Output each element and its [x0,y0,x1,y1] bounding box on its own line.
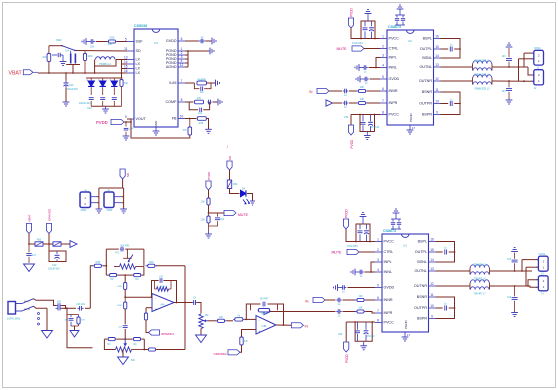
resistor R33 [195,100,204,104]
wire BT2 pins to gnd [122,196,124,198]
svg-text:IN: IN [305,325,309,329]
U3 pin 6 GVDD [166,37,185,43]
svg-text:R26: R26 [110,36,115,40]
capacitor C40 [343,101,349,106]
wire jack sleeve to earth [46,308,48,330]
capacitor C13 to ground top [512,253,518,272]
svg-text:PVDD: PVDD [207,171,211,180]
wire op-amp1 minus input [125,296,151,298]
svg-text:+: + [155,307,157,311]
capacitor C3 [358,270,364,275]
U1 PGND pin 17 [404,319,411,337]
U2 pin 2 CTRL [380,45,398,51]
svg-text:4: 4 [382,64,384,68]
svg-text:INNR: INNR [384,298,393,302]
svg-text:PWRPA L4: PWRPA L4 [99,63,111,66]
inductor L4b [473,78,492,85]
svg-text:560K: 560K [160,286,166,288]
svg-text:11: 11 [435,88,439,92]
wire riser to tone network [90,266,93,309]
ground right of COMP [217,99,222,106]
svg-text:1/3PH_MAS: 1/3PH_MAS [7,318,21,321]
inductor L3 [473,75,492,85]
svg-text:10K: 10K [201,201,206,204]
wire COMP loop [189,102,198,110]
capacitor C32 loop [194,83,211,91]
U1 pin 1 PVCC [375,238,394,244]
svg-text:BSPR: BSPR [417,317,427,321]
svg-text:100uF/10V: 100uF/10V [48,268,60,271]
wire C4 to pot2 [197,303,201,314]
wire after L1L2 [492,66,528,68]
svg-text:MUTE: MUTE [332,251,343,255]
resistor R35 [188,119,192,136]
U1 pin 16 BSPL [418,238,436,244]
svg-text:8: 8 [181,98,183,102]
earth below RP2 [118,357,129,365]
U2 pin 1 PVCC [380,35,399,41]
svg-text:50K RP1: 50K RP1 [120,245,130,247]
svg-text:VBAT: VBAT [9,70,23,76]
svg-text:14: 14 [430,258,434,262]
svg-text:C53: C53 [344,116,349,119]
wire SD port down [122,179,124,188]
resistor R14 [233,318,244,321]
U3 pin 4 PGND [166,59,185,65]
wire long vertical [184,266,186,350]
wire R16 to port [240,345,242,352]
svg-text:47uF/25V: 47uF/25V [347,245,358,248]
ground below R44 [205,231,212,238]
U1 pin 3 INPL [375,258,392,264]
resistor R40 [197,81,207,85]
svg-text:OPAVDD: OPAVDD [48,208,52,221]
resistor R26 [106,40,117,43]
U3 pin 5 SSF [125,38,144,44]
svg-text:104: 104 [220,218,225,221]
wire R10 to R14 [226,320,233,322]
wire feedback to VOUT [131,122,190,138]
port MUTE U2 [352,46,364,51]
wire MUTE to CTRL [364,48,380,50]
svg-text:C30: C30 [69,84,74,87]
wire COMP to ground [213,101,218,103]
svg-text:BSPR: BSPR [422,113,432,117]
wire U1 OUTPL15 [436,251,443,253]
wire to J1 pin2 [523,53,525,67]
svg-text:47uF/25V: 47uF/25V [352,42,363,45]
capacitor C21 feedback [160,278,162,283]
resistor R8 feedback [155,281,172,292]
capacitor C44 polarized [368,115,373,132]
coupling capacitor C16 [36,306,62,310]
svg-text:LX: LX [136,67,141,71]
wire op-amp1 output [174,302,192,304]
wire jack top contact [34,299,56,306]
U3 pin 3 PGND [166,55,185,61]
wire R13 to long vertical [156,349,185,351]
ground below C14 [511,312,518,317]
U2 pin 6 INNR [380,87,398,93]
port OPAVDD [46,224,51,234]
wire PVDD to VOUT [124,119,131,122]
wire jack lower contact [34,306,48,308]
svg-text:IN: IN [305,299,309,303]
svg-text:GVDD: GVDD [384,286,395,290]
svg-text:PVDD: PVDD [345,208,349,218]
ground right of C35 [211,38,216,45]
svg-text:8: 8 [382,111,384,115]
capacitor C1 [358,224,363,242]
svg-text:OUTPL: OUTPL [415,250,427,254]
wire COMP [185,101,194,103]
wire OUTPR10 [441,103,449,105]
svg-text:10K: 10K [205,315,210,317]
wire VBAT lead [33,71,38,73]
capacitor C12 bootstrap [445,306,447,311]
wire R41 to INNR [367,90,380,92]
wire op-amp2 output [276,324,291,326]
wire LX bus [121,60,123,79]
wire GVDD5 [370,78,381,80]
ground below LED [250,201,255,205]
resistor R11 [107,338,116,341]
potentiometer RP2 [116,347,145,352]
svg-text:VBAT: VBAT [107,209,114,212]
wire R45 to loop [103,265,106,267]
capacitor C45 bootstrap [450,47,452,52]
ground above U1 PVCC1 caps [360,213,367,225]
wire FB2 to LED [230,189,240,194]
svg-text:40dBPA: 40dBPA [197,79,206,82]
wire C39 to R41 [349,90,357,92]
wire C20 to loop2 [124,329,126,339]
resistor R1 [355,298,366,301]
svg-text:COMP: COMP [165,100,177,104]
wire BT1 pins to bus [97,196,99,198]
svg-text:R36: R36 [199,122,204,125]
resistor R10 [216,319,227,322]
capacitor C27 [71,51,76,64]
svg-text:OUTPR: OUTPR [419,102,432,106]
wire to J4 pin2 [528,280,538,286]
resistor R27 [83,51,86,73]
wire C40 loop [49,244,66,262]
svg-text:NC_L: NC_L [24,301,30,303]
svg-text:INPR: INPR [389,101,398,105]
svg-text:FB3: FB3 [37,238,42,241]
earth triangle U1 INPR7 [264,308,271,314]
wire R2 to U1 INPR [366,312,376,314]
svg-text:104: 104 [90,46,95,49]
port IN U1 [313,297,325,302]
port PVDD mute [206,181,211,190]
potentiometer RP3 [199,314,208,329]
earth below pot2 [196,335,207,343]
U3 pin 12 AGND [166,63,185,69]
wire C46 to bracket [454,103,460,105]
svg-text:10: 10 [435,100,439,104]
svg-text:BSPL: BSPL [423,37,432,41]
U1 pin 15 OUTPL [415,248,436,254]
U2 pin 10 OUTPR [419,100,440,106]
U1 pin 11 BSNR [417,293,436,299]
inductor L5 [470,265,489,275]
U3 pin 1 PGND [166,47,185,53]
svg-text:6: 6 [382,87,384,91]
U3 pin 8 COMP [165,98,185,104]
port PVDD bottom U2 [348,125,353,135]
wire U1 OUTPR10 [436,307,443,309]
wire L4 loop [95,60,116,67]
U2 pin 15 OUTPL [420,45,441,51]
capacitor C38 [363,77,369,82]
wire FB4 to arrow [61,243,70,245]
wire diode row top [86,77,122,79]
inductor L1 [473,61,492,71]
svg-text:100K: 100K [88,56,94,58]
diode D2 [98,78,106,95]
wire U1 BSPR9 bracket [436,297,455,319]
wire OPAVDD port down [48,234,50,245]
ferrite bead FB4 [53,242,61,246]
svg-text:PVCC: PVCC [384,321,395,325]
svg-text:SW2: SW2 [56,38,62,42]
capacitor C51 polarized [55,251,60,262]
ground right of ILIM [215,80,220,87]
svg-text:10K: 10K [360,86,365,89]
ground below R36 [205,129,212,133]
wire MUTE to U1 CTRL [359,251,375,253]
ground right of PGND [209,48,214,55]
capacitor C14 to ground bottom [512,286,518,312]
svg-text:INPL: INPL [384,260,392,264]
wire SD to switch [75,50,127,53]
svg-text:NC: NC [110,279,114,281]
svg-text:NC: NC [107,344,111,346]
inductor L7 [470,280,489,290]
inductor L8 [471,283,490,290]
wire LED to ground [247,194,253,202]
svg-text:47K: 47K [81,320,85,322]
svg-text:50K: 50K [131,360,136,362]
wire C17 to riser [85,307,90,309]
wire to C30 [65,73,67,81]
svg-text:10K: 10K [219,317,224,319]
capacitor C53 [112,98,117,107]
wire after L5L6 [490,270,533,272]
svg-text:13: 13 [435,63,439,67]
svg-text:-: - [155,296,156,300]
svg-text:12: 12 [430,282,434,286]
svg-text:IN: IN [309,90,313,94]
svg-text:5: 5 [382,75,384,79]
svg-text:LX: LX [136,62,141,66]
svg-text:100K: 100K [117,305,123,307]
RP1 wiper [123,249,133,262]
svg-text:U1: U1 [403,244,407,248]
svg-text:11: 11 [430,293,434,297]
svg-text:INPL: INPL [389,56,397,60]
wire U1 OUTNL13 line [436,270,471,272]
svg-text:GVDD: GVDD [389,77,400,81]
svg-text:C40: C40 [52,264,57,267]
wire R36 to ground [206,119,208,130]
svg-text:OUTNR: OUTNR [414,284,427,288]
wire FB [185,118,197,120]
ground below PVCC8 caps [364,132,371,140]
capacitor C17 [77,306,83,311]
IC U1 CS8673 amplifier body [382,229,429,332]
battery holder BT1 [80,190,97,212]
op-amp1 feedback loop [152,281,159,298]
svg-text:U3: U3 [154,41,158,45]
svg-text:CS5038: CS5038 [134,24,147,28]
ground left of C26 [82,38,89,45]
wire to J3 pin1 [525,267,527,286]
svg-text:C52: C52 [338,333,343,336]
svg-text:OUTNR: OUTNR [419,79,432,83]
wire pot2 wiper [208,320,217,322]
wire after L7L8 [490,286,539,287]
wire RC bottom [71,325,79,327]
svg-text:FB2: FB2 [233,183,238,186]
svg-text:PVCC: PVCC [389,37,400,41]
port MUTE U1 [347,249,359,254]
wire batt top bus [99,187,124,189]
earth below C50 [24,264,35,272]
IC U3 CS5038 boost converter body [134,24,178,127]
wire R7 to C20 [124,309,126,324]
capacitor C8 [355,322,360,341]
resistor R4 [108,274,118,277]
ground below diode caps [102,106,109,113]
resistor R2 [355,310,366,313]
ground above C47 [506,43,513,47]
U3 pin 16 LX [124,69,141,75]
svg-text:OUTPR: OUTPR [414,306,427,310]
U3 GND pin 17 [154,120,158,131]
wire tone loop 1 [106,248,119,250]
capacitor C51 [89,98,94,107]
wire VBAT port down [29,234,35,245]
port PVDD [111,119,124,124]
wire C11 to bracket [449,251,455,253]
wire C6 to R1 [343,299,356,301]
port PVDD top U2 [348,18,353,28]
wire IN to C39 [329,90,342,92]
U1 pin 12 OUTNR [414,282,436,288]
svg-text:PVDD: PVDD [345,353,349,363]
diode D1 [87,78,95,95]
svg-text:13: 13 [430,267,434,271]
U2 pin 11 BSNR [422,88,441,94]
capacitor C42 polarized [369,21,374,39]
wire R42 to INPR [367,102,380,104]
wire U1 BSPL16 bracket [436,242,455,263]
svg-text:6: 6 [377,296,379,300]
wire to J3 pin2 [521,260,523,271]
svg-text:471C10: 471C10 [367,336,376,338]
svg-text:1: 1 [377,238,379,242]
wire plus input bias [145,308,147,313]
capacitor C2 polarized [364,224,369,242]
wire PVDD to U1 PVCC1 [346,229,375,242]
wire cap row bottom bus [91,105,121,107]
wire C30 to ground [65,88,67,103]
svg-text:R46: R46 [149,261,154,264]
capacitor C50 [26,244,31,263]
audio jack J5 [8,299,34,314]
resistor R46 [145,264,157,267]
U2 pin 16 BSPL [423,35,441,41]
U2 pin 7 INPR [380,99,398,105]
svg-text:10K: 10K [201,219,206,222]
svg-text:16: 16 [430,238,434,242]
U3 pin 11 SD [124,47,141,53]
svg-text:U4B: U4B [262,325,267,328]
port PVDD bottom U1 [344,342,349,352]
svg-text:4: 4 [377,268,379,272]
svg-text:BSNL: BSNL [422,56,432,60]
wire channel2 down [67,308,93,347]
resistor R13 [148,348,157,351]
port SD batt [120,169,125,179]
svg-text:12: 12 [435,77,439,81]
capacitor C30 [64,81,69,88]
ground below C28 [60,62,67,66]
wire INNL4 [369,67,377,69]
wire tone loop 2 [104,338,107,340]
wire VBAT rail [38,72,122,74]
svg-text:3: 3 [377,258,379,262]
battery holder BT2 [104,190,122,212]
wire R6 to node [124,290,126,298]
svg-text:-: - [259,318,260,322]
svg-text:14: 14 [435,54,439,58]
port PVDD top U1 [343,219,348,229]
svg-text:LX: LX [136,58,141,62]
coupling capacitor C15 [56,303,63,307]
wire PVCC8 cap loop [360,115,375,132]
capacitor C5 [341,285,347,290]
U1 pin 4 INNL [375,268,392,274]
svg-text:VBAT: VBAT [28,214,32,222]
resistor R36 [197,117,206,121]
capacitor C20 [123,326,128,328]
U1 pin 14 BSNL [417,258,435,264]
svg-text:7: 7 [382,99,384,103]
inductor L6 [471,268,490,275]
svg-text:17: 17 [412,126,416,130]
wire caps to node [61,306,65,309]
svg-text:AGND: AGND [166,65,177,69]
wire PVDD to R43 [208,190,210,198]
wire SD to FB2 [229,170,231,180]
U3 pin 15 LX [124,65,141,71]
svg-text:1: 1 [382,35,384,39]
U2 PGND pin 17 [409,112,416,130]
svg-text:INNR: INNR [389,89,398,93]
capacitor C41 [363,21,368,39]
connector J1 [532,47,544,69]
ground below U1 PVCC8 caps [360,342,367,350]
svg-text:7: 7 [377,309,379,313]
svg-text:U2: U2 [408,39,412,43]
svg-text:OUTNL: OUTNL [415,269,428,273]
port IN out [291,323,303,328]
svg-text:PGND: PGND [409,112,413,122]
